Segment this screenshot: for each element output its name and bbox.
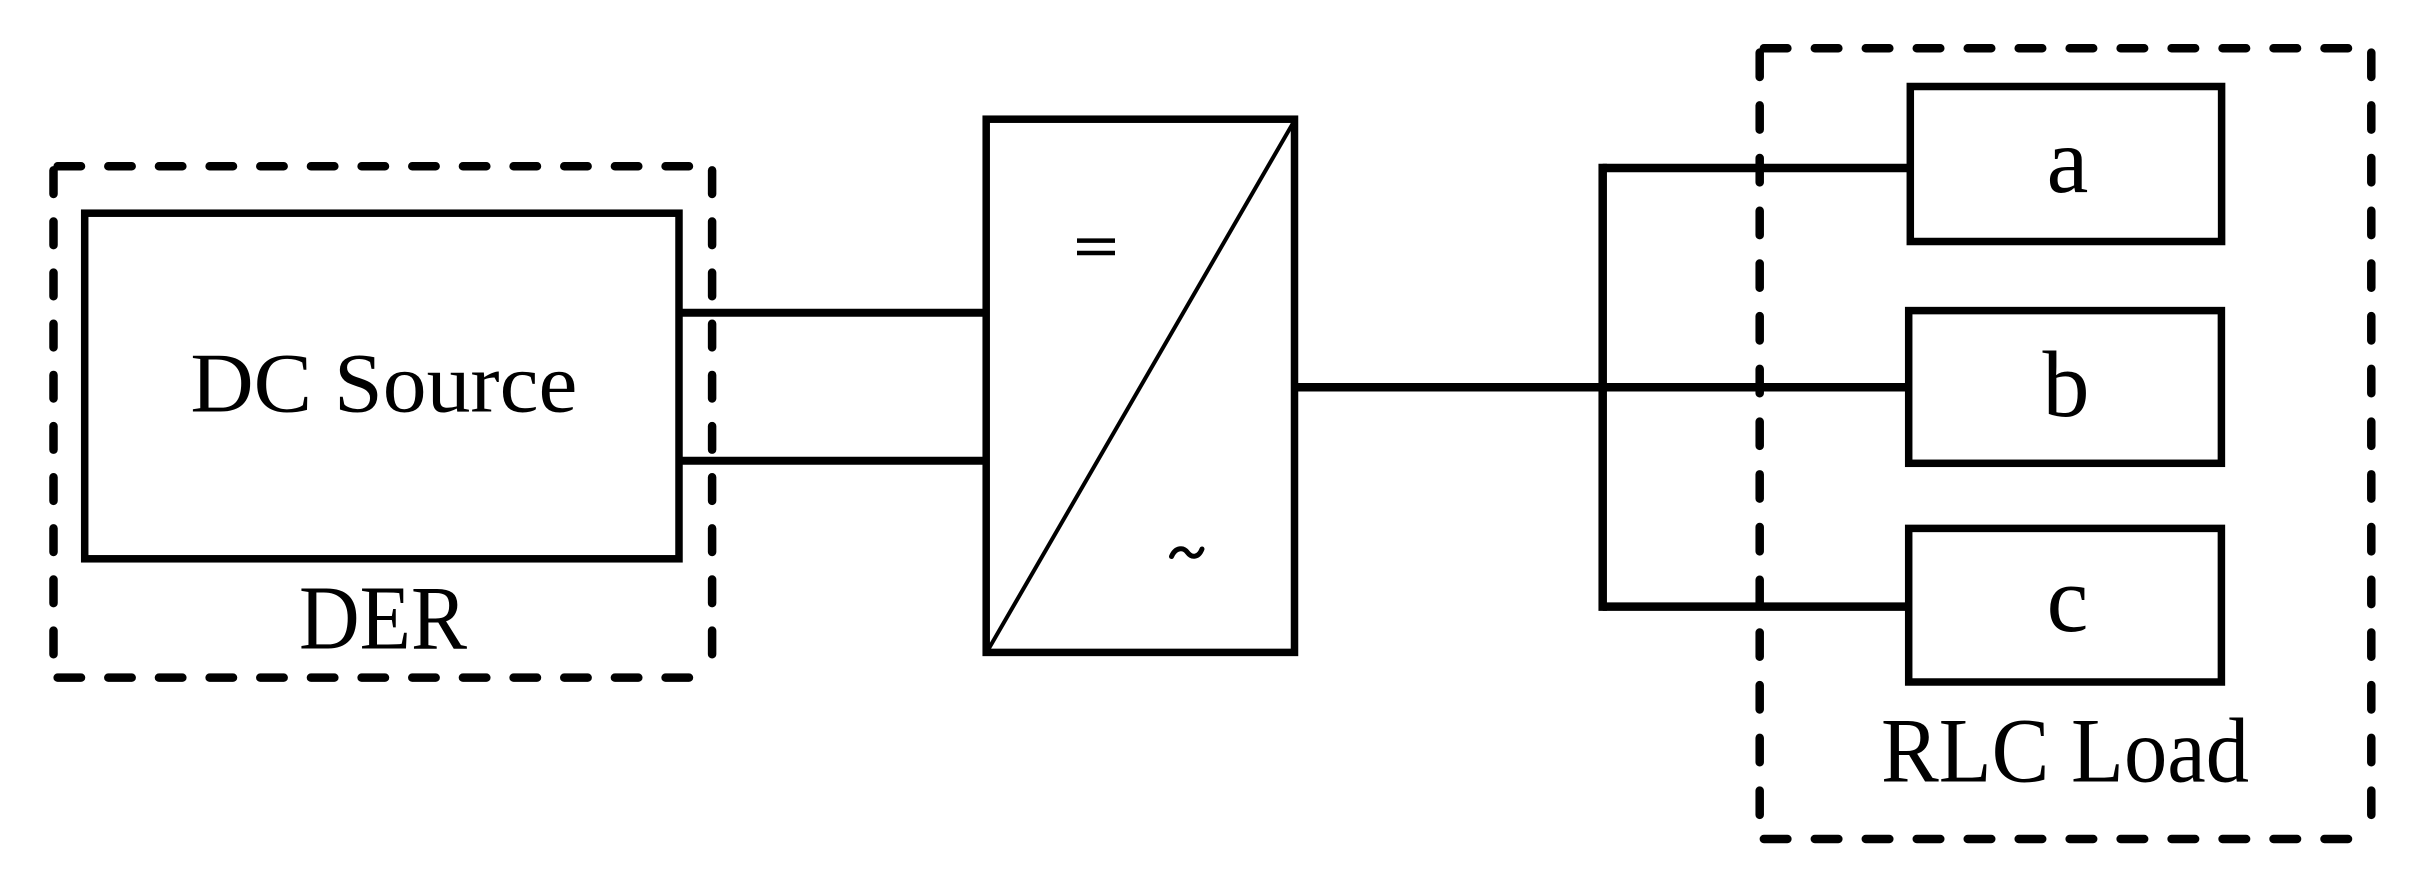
svg-text:b: b bbox=[2043, 333, 2090, 437]
wire: phase c branch bbox=[1603, 602, 1911, 611]
DC symbol = (top bar) bbox=[1077, 238, 1115, 243]
svg-text:RLC Load: RLC Load bbox=[1881, 700, 2249, 802]
svg-text:a: a bbox=[2047, 109, 2089, 213]
wire: DC negative (DC Source to inverter, lower) bbox=[679, 457, 986, 465]
DER enclosure (dashed box) bbox=[54, 166, 713, 677]
DC symbol = (bottom bar) bbox=[1077, 251, 1115, 256]
wire: DC positive (DC Source to inverter, upper) bbox=[679, 309, 986, 317]
wire: phase a branch bbox=[1603, 164, 1911, 173]
load box c bbox=[1909, 528, 2222, 682]
wire: AC output (inverter to phase b) bbox=[1295, 383, 1911, 392]
inverter U1 box bbox=[986, 119, 1294, 652]
DC Source box bbox=[85, 213, 679, 559]
AC symbol ~ bbox=[1172, 549, 1203, 557]
svg-text:DC Source: DC Source bbox=[190, 337, 577, 431]
inverter diagonal bbox=[989, 124, 1293, 649]
bus: vertical distribution line bbox=[1598, 168, 1607, 607]
svg-text:c: c bbox=[2047, 548, 2089, 652]
RLC Load enclosure (dashed box) bbox=[1760, 48, 2372, 839]
svg-text:DER: DER bbox=[299, 568, 467, 669]
load box b bbox=[1909, 311, 2222, 464]
load box a bbox=[1910, 87, 2221, 242]
